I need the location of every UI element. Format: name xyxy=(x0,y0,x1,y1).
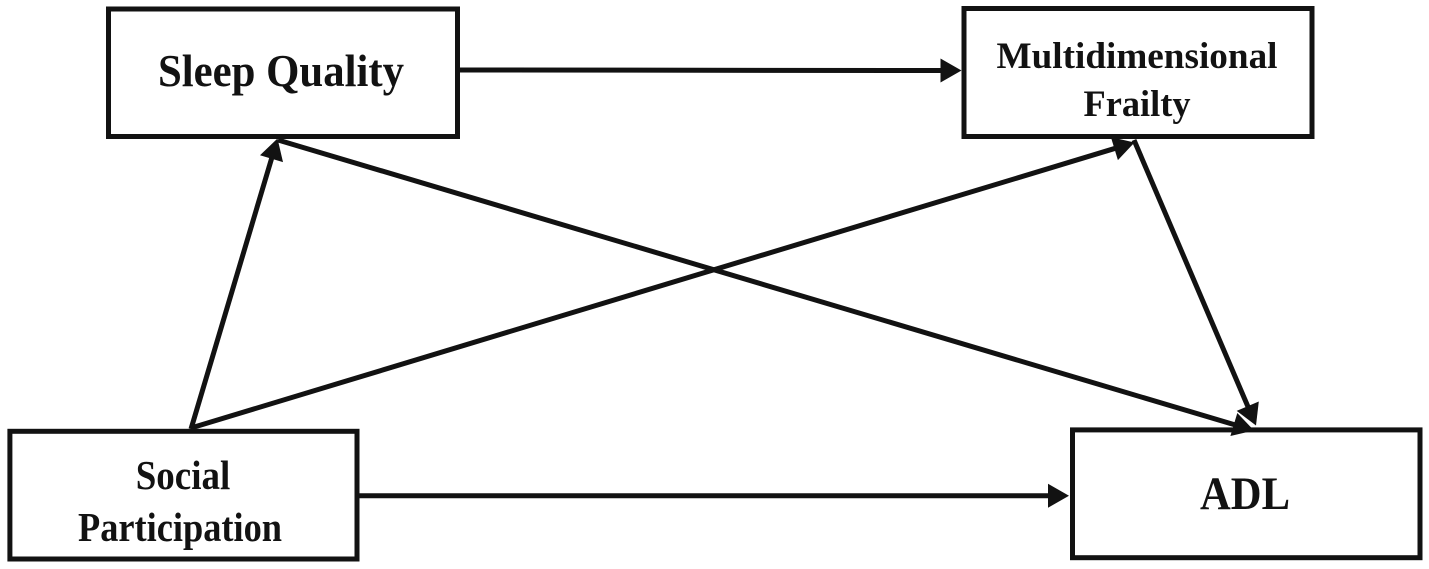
svg-text:Frailty: Frailty xyxy=(1084,84,1191,125)
svg-text:Social: Social xyxy=(136,452,231,498)
box Sleep Quality xyxy=(109,9,458,137)
arrow Sleep Quality to ADL xyxy=(278,140,1254,436)
arrow Social Participation to Multidimensional Frailty xyxy=(191,137,1135,428)
arrow Social Participation to ADL xyxy=(360,484,1070,508)
box ADL xyxy=(1073,430,1421,558)
svg-text:Participation: Participation xyxy=(78,504,282,550)
svg-text:Sleep Quality: Sleep Quality xyxy=(158,46,404,96)
arrow Sleep Quality to Multidimensional Frailty xyxy=(459,59,962,83)
svg-text:Multidimensional: Multidimensional xyxy=(997,36,1278,77)
box Multidimensional Frailty xyxy=(964,9,1312,137)
svg-text:ADL: ADL xyxy=(1200,468,1290,520)
box Social Participation xyxy=(10,431,357,559)
arrow Social Participation to Sleep Quality xyxy=(191,139,283,430)
arrow Multidimensional Frailty to ADL xyxy=(1134,140,1259,426)
